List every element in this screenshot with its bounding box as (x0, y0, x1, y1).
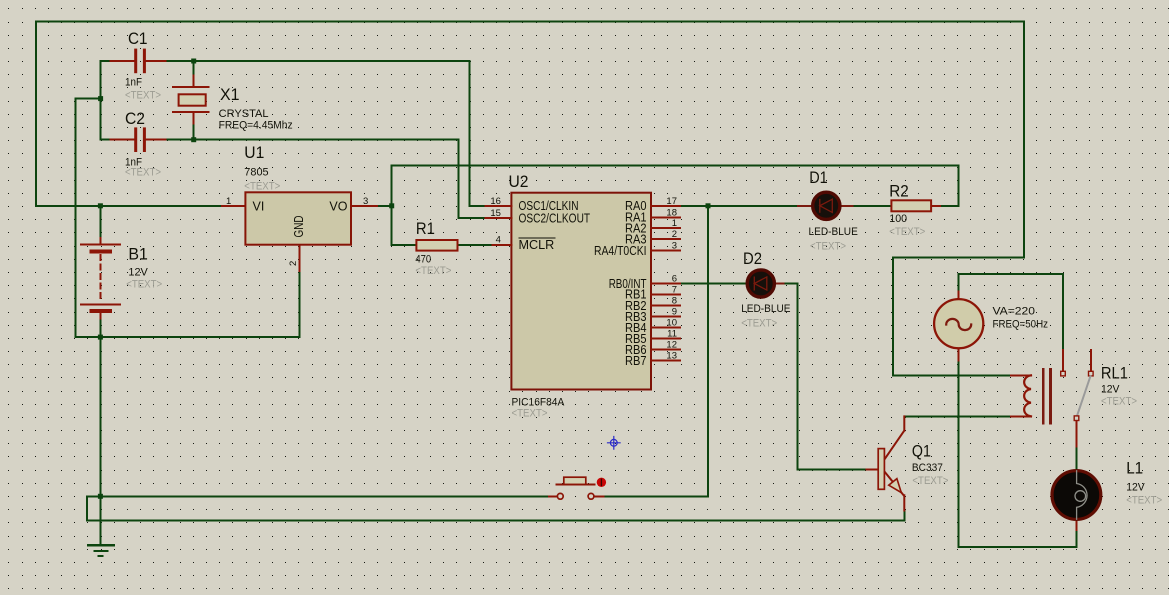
svg-text:1nF: 1nF (125, 77, 142, 89)
svg-text:2: 2 (288, 261, 299, 266)
wire collector rail (904, 415, 1011, 417)
push button (549, 477, 606, 499)
svg-text:3: 3 (672, 241, 677, 252)
crystal X1 (173, 76, 209, 124)
svg-text:<TEXT>: <TEXT> (741, 318, 777, 330)
wire C2 row (101, 140, 486, 219)
svg-text:1: 1 (672, 218, 677, 229)
svg-text:VA=220: VA=220 (993, 306, 1036, 318)
svg-text:OSC2/CLKOUT: OSC2/CLKOUT (519, 212, 591, 226)
U2 pin names right (594, 199, 647, 368)
svg-text:470: 470 (415, 253, 431, 265)
svg-text:6: 6 (672, 274, 677, 285)
wire top rail (36, 21, 1024, 375)
resistor R2 (891, 200, 940, 211)
wires-green (36, 21, 1077, 547)
svg-text:100: 100 (889, 213, 907, 225)
svg-text:U2: U2 (509, 172, 529, 191)
svg-text:1: 1 (226, 196, 231, 207)
microcontroller U2 (486, 193, 681, 390)
wire cap jog (76, 99, 300, 338)
svg-text:<TEXT>: <TEXT> (912, 475, 948, 487)
wire ground drop (99, 337, 101, 545)
svg-text:3: 3 (363, 196, 368, 207)
svg-text:4: 4 (496, 234, 501, 245)
ground (88, 545, 113, 556)
LED D1 (798, 192, 852, 219)
svg-text:<TEXT>: <TEXT> (1126, 494, 1162, 506)
svg-text:MCLR: MCLR (519, 238, 555, 252)
resistor R1 (416, 240, 457, 251)
svg-text:<TEXT>: <TEXT> (415, 265, 451, 277)
svg-text:12V: 12V (1126, 481, 1145, 493)
wire crystal top stub (193, 61, 195, 76)
wire RB0 to D2 (680, 284, 866, 470)
wire VI rail (36, 205, 222, 207)
svg-text:RL1: RL1 (1101, 364, 1128, 383)
svg-text:Q1: Q1 (912, 442, 931, 461)
svg-text:7805: 7805 (244, 167, 268, 179)
wire crystal bottom stub (193, 123, 195, 139)
wire2 bottom long (87, 496, 904, 520)
wire R1 to MCLR (458, 244, 493, 246)
svg-text:B1: B1 (128, 245, 148, 264)
svg-text:FREQ=4.45Mhz: FREQ=4.45Mhz (219, 120, 293, 132)
svg-text:<TEXT>: <TEXT> (810, 241, 846, 253)
LED D2 (747, 270, 783, 297)
svg-text:7: 7 (672, 284, 677, 295)
svg-text:CRYSTAL: CRYSTAL (219, 108, 269, 120)
svg-text:<TEXT>: <TEXT> (126, 279, 162, 291)
capacitor C1 (110, 49, 165, 74)
U2 pin numbers (490, 196, 677, 362)
wire C1 row (101, 61, 486, 206)
svg-text:<TEXT>: <TEXT> (889, 226, 925, 238)
svg-text:12: 12 (666, 340, 677, 351)
svg-text:9: 9 (672, 307, 677, 318)
regulator U1 (222, 192, 377, 270)
svg-text:17: 17 (666, 196, 677, 207)
wire U1 pin2 drop (299, 271, 301, 337)
svg-text:C2: C2 (125, 109, 145, 128)
wire1 right to RA0 riser (603, 206, 708, 497)
svg-text:X1: X1 (220, 85, 240, 104)
relay RL1 contact (1061, 350, 1093, 447)
svg-text:12V: 12V (128, 267, 148, 279)
svg-text:L1: L1 (1126, 459, 1143, 478)
lamp L1 (1052, 471, 1101, 530)
svg-text:C1: C1 (128, 29, 148, 48)
wire1 bottom (87, 495, 549, 497)
svg-text:LED-BLUE: LED-BLUE (741, 303, 790, 315)
battery B1 (81, 238, 120, 319)
svg-text:D1: D1 (809, 168, 828, 187)
wire RA0 to D1 (680, 205, 891, 207)
svg-text:D2: D2 (743, 249, 762, 268)
wire battery bottom (99, 319, 101, 338)
svg-text:RB7: RB7 (625, 354, 647, 368)
svg-text:<TEXT>: <TEXT> (1101, 396, 1137, 408)
svg-text:<TEXT>: <TEXT> (125, 167, 161, 179)
svg-text:18: 18 (666, 207, 677, 218)
svg-text:VO: VO (329, 200, 347, 214)
wire cap-left vertical (100, 61, 102, 140)
svg-text:13: 13 (666, 351, 677, 362)
svg-text:BC337: BC337 (912, 462, 943, 474)
svg-text:R1: R1 (416, 219, 435, 238)
svg-text:<TEXT>: <TEXT> (125, 90, 161, 102)
svg-text:12V: 12V (1101, 383, 1120, 395)
wire battery top (99, 206, 101, 238)
svg-text:16: 16 (490, 196, 501, 207)
svg-text:2: 2 (672, 229, 677, 240)
capacitor C2 (110, 127, 165, 152)
svg-text:10: 10 (666, 318, 677, 329)
svg-text:<TEXT>: <TEXT> (244, 181, 280, 193)
wire AC bottom to lamp (959, 360, 1077, 547)
svg-text:GND: GND (292, 216, 306, 238)
svg-text:FREQ=50Hz: FREQ=50Hz (993, 319, 1049, 331)
svg-text:11: 11 (667, 329, 677, 340)
wire lamp top (1076, 447, 1078, 468)
svg-text:8: 8 (672, 295, 677, 306)
relay RL1 coil (1011, 369, 1051, 423)
svg-text:U1: U1 (244, 143, 264, 162)
svg-text:<TEXT>: <TEXT> (512, 408, 548, 420)
origin marker (608, 437, 621, 450)
wire AC top loop (959, 274, 1063, 350)
AC source VA (934, 291, 983, 360)
svg-text:15: 15 (490, 208, 501, 219)
transistor Q1 (866, 416, 904, 510)
svg-text:R2: R2 (889, 182, 909, 201)
svg-text:LED-BLUE: LED-BLUE (809, 226, 858, 238)
svg-text:RA4/T0CKI: RA4/T0CKI (594, 244, 647, 258)
svg-text:VI: VI (253, 200, 265, 214)
wire VO to junction (377, 166, 958, 246)
